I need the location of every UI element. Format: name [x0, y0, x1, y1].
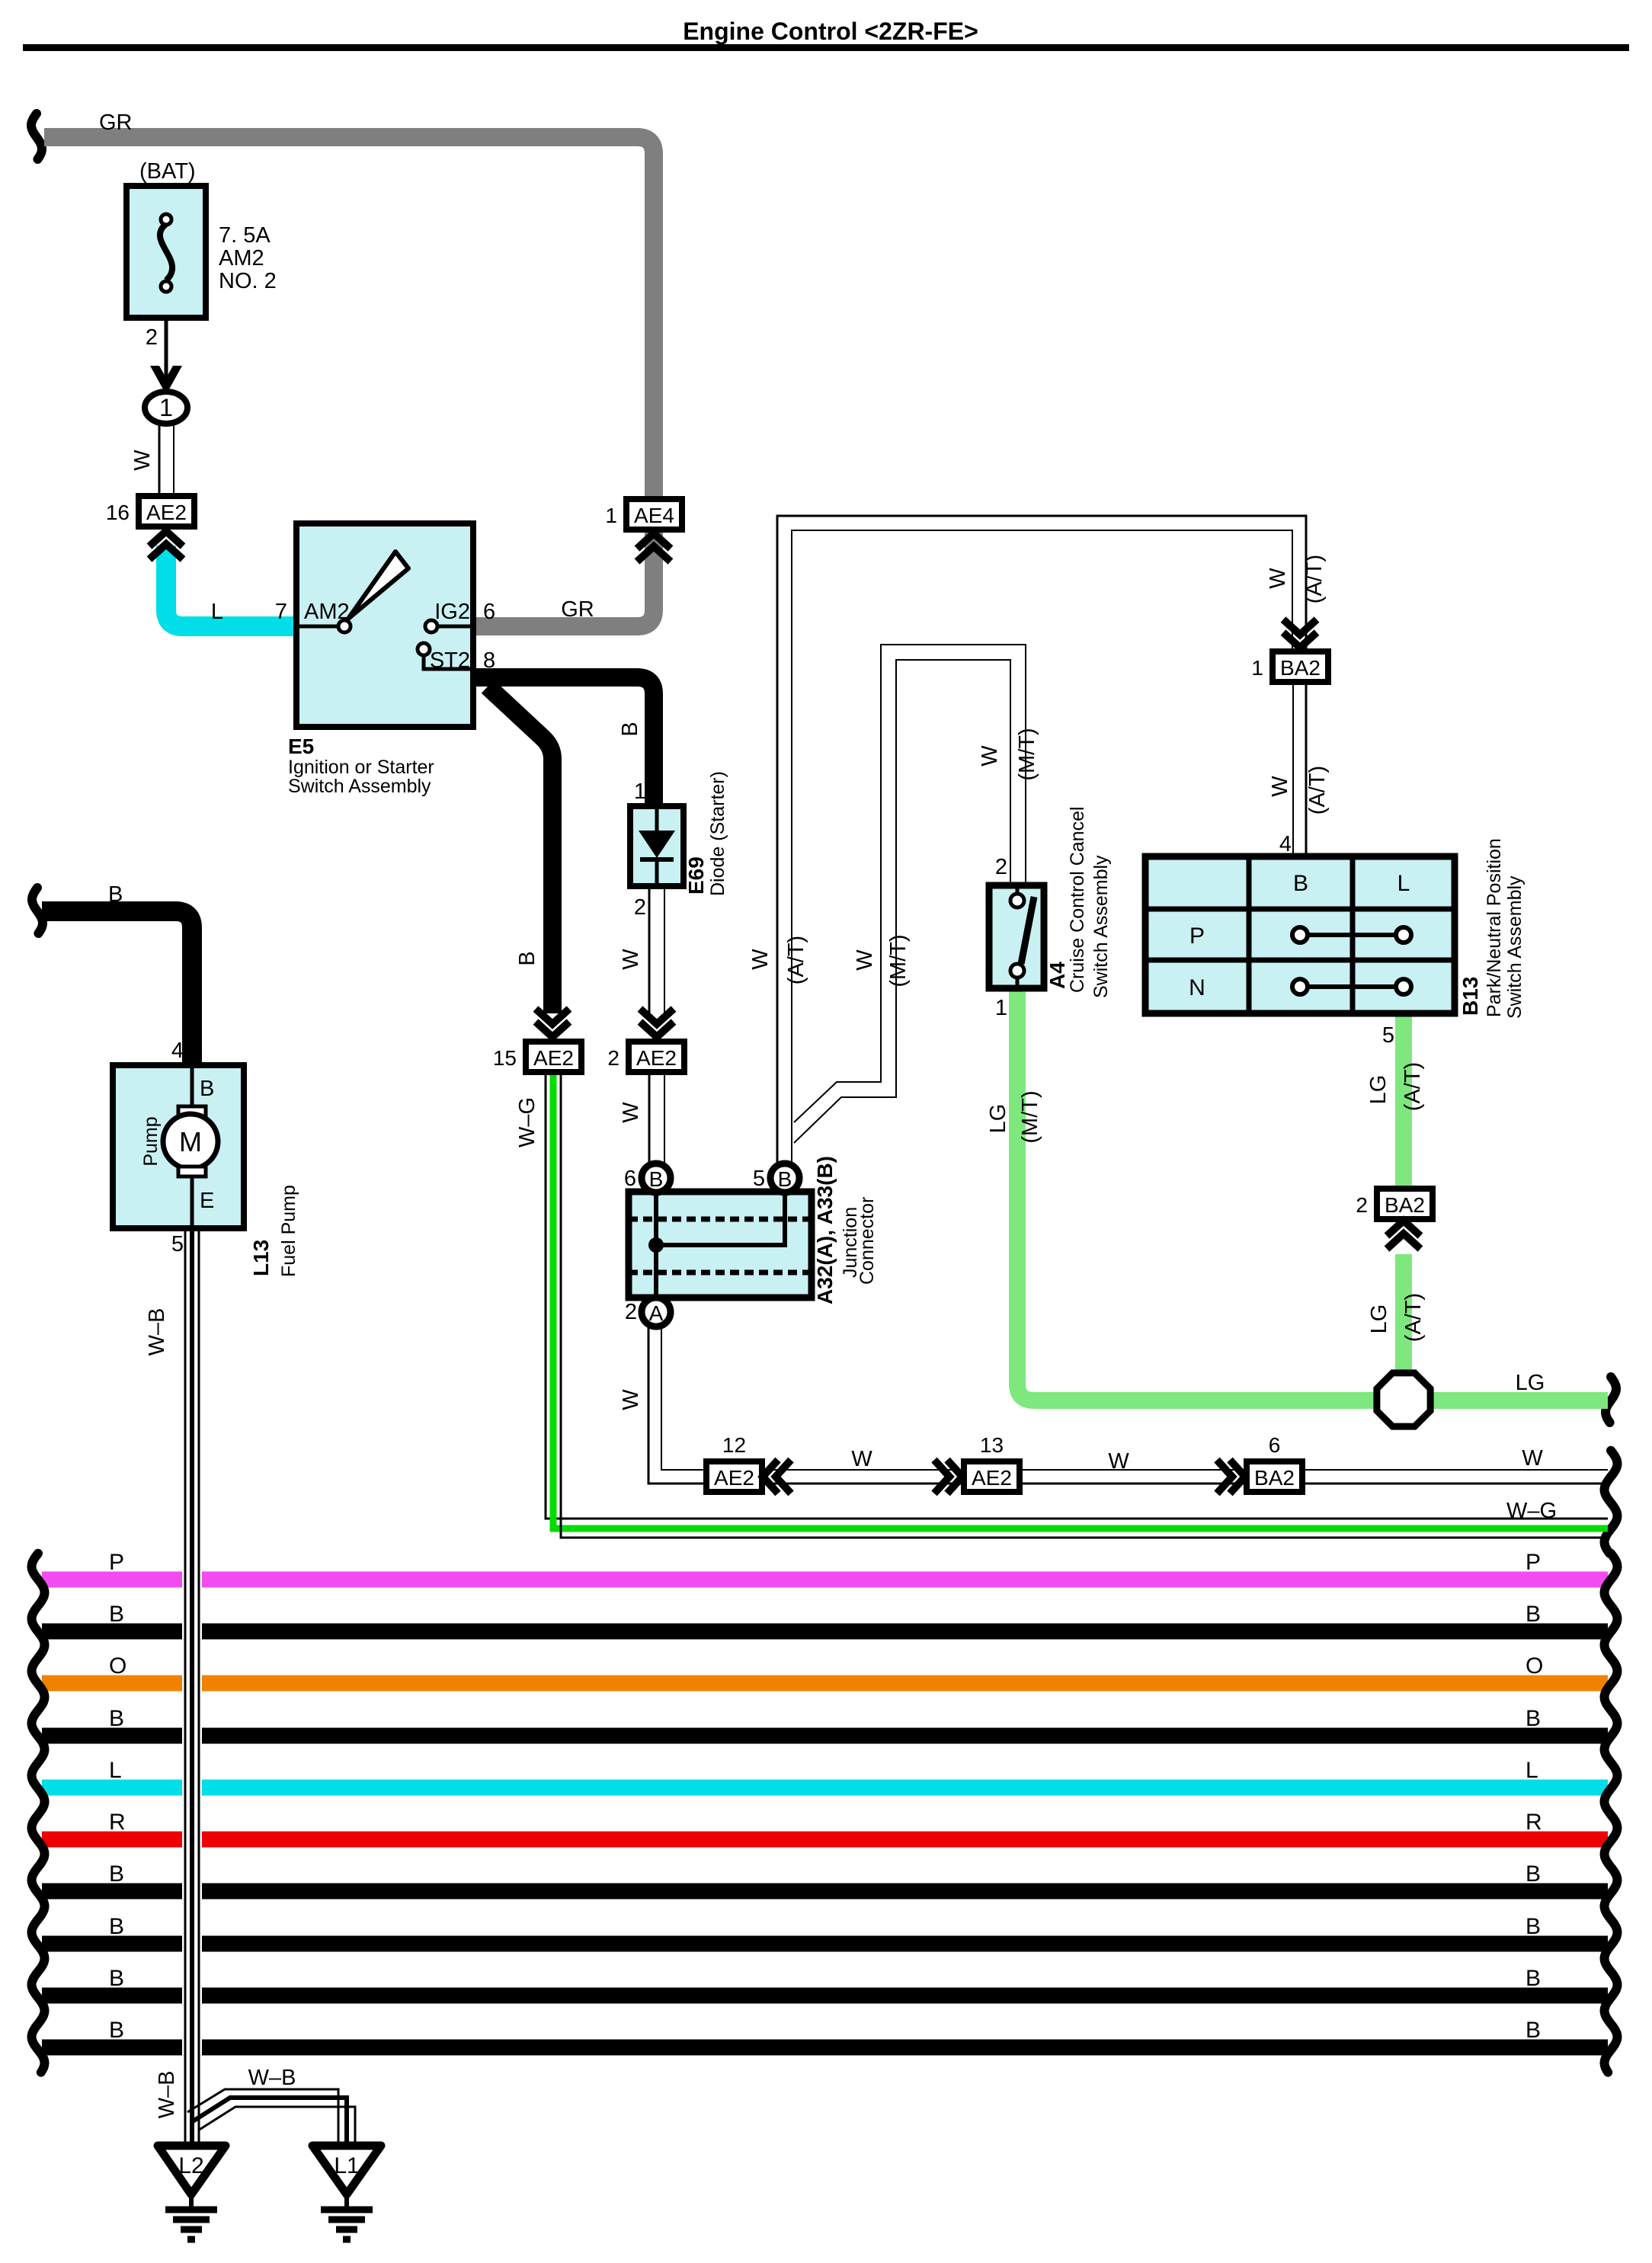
svg-text:Switch Assembly: Switch Assembly	[1090, 855, 1112, 998]
svg-text:8: 8	[483, 648, 495, 673]
fuel pump L13 box	[113, 1065, 244, 1228]
pump motor M	[163, 1114, 218, 1169]
wire break symbol chain left (bus)	[32, 1554, 45, 2073]
svg-text:BA2: BA2	[1254, 1466, 1295, 1490]
connector 1 BA2	[1283, 632, 1317, 648]
svg-text:L: L	[109, 1758, 122, 1783]
wire W below diode to AE2 2 to junction B6	[648, 886, 651, 1013]
svg-text:W: W	[619, 1102, 643, 1123]
svg-text:1: 1	[1251, 656, 1263, 680]
svg-text:B: B	[200, 1077, 214, 1101]
svg-text:Fuel Pump: Fuel Pump	[278, 1185, 299, 1277]
E5 AM2 contact	[299, 625, 338, 629]
svg-text:L1: L1	[334, 2153, 359, 2178]
svg-text:M: M	[179, 1126, 202, 1157]
wire W: junction A down, right to AE2 12, AE2 13, BA2 6, break	[648, 1328, 1608, 1484]
svg-text:6: 6	[624, 1167, 636, 1191]
E5 IG2 contact	[425, 620, 437, 632]
park/neutral position switch B13 box	[1145, 856, 1455, 1013]
svg-text:P: P	[1526, 1550, 1541, 1575]
svg-text:(M/T): (M/T)	[886, 934, 911, 987]
svg-text:2: 2	[634, 895, 646, 920]
svg-text:Switch Assembly: Switch Assembly	[1504, 875, 1526, 1019]
wire W-G: AE2 15 down and right to break	[546, 1070, 1608, 1519]
svg-text:(A/T): (A/T)	[1401, 1062, 1425, 1111]
svg-text:Cruise Control Cancel: Cruise Control Cancel	[1067, 806, 1088, 993]
svg-text:W: W	[1266, 568, 1290, 589]
diode E69 box	[630, 806, 684, 886]
svg-text:ST2: ST2	[430, 648, 470, 673]
svg-text:Engine Control <2ZR-FE>: Engine Control <2ZR-FE>	[683, 18, 978, 45]
svg-text:(A/T): (A/T)	[1401, 1293, 1426, 1342]
svg-text:W: W	[619, 1389, 643, 1410]
svg-text:A32(A), A33(B): A32(A), A33(B)	[813, 1156, 837, 1304]
wire break symbol chain right (bus)	[1605, 1554, 1618, 2073]
wire LG: octagon right to break	[1431, 1392, 1608, 1409]
svg-text:(M/T): (M/T)	[1015, 728, 1039, 780]
svg-text:LG: LG	[1516, 1371, 1545, 1395]
connector 2 BA2	[1377, 1189, 1433, 1219]
svg-text:(A/T): (A/T)	[1302, 555, 1327, 603]
connector 15 AE2	[536, 1022, 569, 1037]
svg-text:4: 4	[1279, 832, 1292, 856]
svg-text:GR: GR	[99, 110, 133, 135]
svg-text:N: N	[1189, 975, 1205, 1000]
svg-text:W: W	[853, 949, 877, 971]
node 1 ellipse	[145, 392, 187, 424]
connector 16 AE2	[139, 496, 194, 527]
svg-text:AM2: AM2	[219, 246, 264, 270]
connector 13 AE2	[947, 1460, 962, 1493]
svg-text:13: 13	[980, 1433, 1004, 1457]
wire W-B vertical gap mask	[182, 1562, 202, 2065]
svg-text:P: P	[109, 1550, 124, 1575]
connector 2 AE2	[640, 1022, 674, 1037]
svg-text:B: B	[109, 1602, 124, 1627]
svg-text:Diode (Starter): Diode (Starter)	[707, 771, 728, 896]
junction pin circle B 5	[770, 1164, 799, 1192]
svg-text:(BAT): (BAT)	[139, 159, 196, 184]
svg-text:A4: A4	[1045, 962, 1069, 989]
svg-text:Park/Neutral Position: Park/Neutral Position	[1484, 838, 1505, 1017]
svg-text:W–B: W–B	[155, 2071, 179, 2119]
svg-text:1: 1	[995, 996, 1007, 1020]
svg-text:O: O	[109, 1653, 126, 1679]
svg-text:Switch Assembly: Switch Assembly	[288, 776, 431, 797]
svg-text:NO. 2: NO. 2	[219, 269, 277, 293]
svg-text:W: W	[978, 745, 1002, 767]
fuse AM2 NO.2 (BAT)	[126, 186, 206, 318]
connector 1 AE4	[626, 499, 682, 530]
svg-text:GR: GR	[561, 597, 594, 622]
svg-text:B: B	[1526, 1914, 1541, 1939]
wire break GR top left	[31, 114, 42, 159]
svg-text:AE2: AE2	[533, 1046, 574, 1070]
svg-text:6: 6	[1269, 1433, 1281, 1457]
svg-text:R: R	[109, 1810, 126, 1835]
connector 12 AE2	[706, 1461, 762, 1492]
svg-text:2: 2	[995, 855, 1007, 879]
svg-text:P: P	[1189, 923, 1205, 949]
svg-text:AE2: AE2	[146, 501, 187, 524]
svg-text:W: W	[1268, 776, 1292, 797]
svg-text:W–B: W–B	[145, 1308, 169, 1356]
svg-text:L: L	[211, 600, 223, 624]
svg-text:Ignition or Starter: Ignition or Starter	[288, 757, 434, 778]
bus wire labels	[109, 1550, 1543, 2043]
svg-text:7. 5A: 7. 5A	[219, 223, 271, 248]
svg-text:O: O	[1526, 1653, 1543, 1679]
svg-text:E: E	[200, 1189, 214, 1213]
junction pin circle A 2	[642, 1298, 671, 1327]
svg-text:L: L	[1397, 871, 1410, 896]
svg-text:L13: L13	[249, 1240, 273, 1276]
svg-text:6: 6	[483, 600, 495, 624]
wire from fuse pin 2 to node 1	[165, 318, 168, 381]
wire GR: from break via AE4 down to E5 IG2	[44, 137, 654, 626]
svg-text:B: B	[109, 1966, 124, 1991]
svg-text:2: 2	[146, 325, 158, 350]
svg-text:B: B	[1293, 871, 1308, 896]
svg-text:1: 1	[605, 504, 617, 527]
svg-text:LG: LG	[986, 1104, 1010, 1134]
junction connector A32(A) A33(B) box	[629, 1192, 812, 1298]
svg-text:AE2: AE2	[636, 1046, 677, 1070]
wire break LG right	[1606, 1377, 1616, 1423]
E5 lever	[348, 552, 408, 619]
wire break W / W-G right	[1605, 1451, 1618, 1554]
svg-text:B: B	[108, 882, 123, 907]
svg-text:W–G: W–G	[515, 1097, 539, 1148]
svg-text:B: B	[1526, 2018, 1541, 2043]
cruise control cancel switch A4 box	[989, 885, 1044, 988]
svg-text:5: 5	[171, 1232, 184, 1256]
wire W (A/T): BA2 1 down to B13 pin 4	[1292, 678, 1294, 858]
svg-text:IG2: IG2	[434, 600, 470, 624]
svg-text:B: B	[1526, 1861, 1541, 1887]
svg-text:W: W	[851, 1447, 872, 1471]
svg-text:W: W	[130, 450, 155, 471]
svg-text:E5: E5	[288, 735, 314, 758]
svg-text:4: 4	[171, 1039, 184, 1063]
svg-text:E69: E69	[684, 856, 708, 895]
connector 6 BA2	[1230, 1460, 1245, 1493]
svg-text:AE4: AE4	[634, 504, 674, 527]
svg-text:2: 2	[625, 1300, 637, 1324]
svg-text:B: B	[1526, 1966, 1541, 1991]
wire B: ST2 to diode E69 with branch to AE2 15	[474, 677, 654, 806]
svg-text:W–B: W–B	[248, 2066, 296, 2090]
E5 ST2 contact	[418, 643, 430, 655]
svg-text:AE2: AE2	[714, 1466, 754, 1490]
svg-text:B: B	[109, 1914, 124, 1939]
svg-text:W–G: W–G	[1506, 1499, 1557, 1523]
svg-text:(A/T): (A/T)	[1305, 766, 1330, 815]
wire W-B branch to ground L1	[187, 2089, 338, 2146]
svg-text:1: 1	[159, 394, 173, 421]
ground L2	[158, 2146, 226, 2194]
svg-text:R: R	[1526, 1810, 1542, 1835]
wire LG (M/T): A4 pin 1 down and right to octagon	[1017, 988, 1376, 1400]
svg-text:2: 2	[607, 1046, 619, 1070]
svg-text:L2: L2	[178, 2153, 203, 2178]
svg-text:B: B	[1526, 1602, 1541, 1627]
svg-text:BA2: BA2	[1385, 1193, 1425, 1217]
svg-text:2: 2	[1356, 1193, 1368, 1217]
node octagon splice	[1377, 1373, 1430, 1426]
svg-text:B: B	[109, 1706, 124, 1731]
arrowhead into node 1	[150, 366, 182, 395]
svg-text:15: 15	[493, 1046, 517, 1070]
svg-text:B: B	[515, 951, 539, 965]
svg-text:Connector: Connector	[856, 1197, 878, 1285]
horizontal bus wires P/B/O/B/L/R/B/B/B/B	[42, 1580, 1608, 2047]
wire W: node 1 to AE2 16 (double line)	[158, 422, 161, 497]
svg-text:1: 1	[634, 779, 646, 804]
svg-text:B: B	[109, 1861, 124, 1887]
svg-text:16: 16	[106, 501, 130, 524]
svg-text:B: B	[778, 1167, 792, 1191]
wire W (A/T) loop: junction B5 up, right, down to BA2 1	[777, 516, 1306, 1165]
ground L1	[312, 2146, 381, 2194]
svg-text:B: B	[109, 2018, 124, 2043]
B13 P row contacts	[1300, 933, 1404, 937]
svg-text:AE2: AE2	[972, 1466, 1012, 1490]
wire LG (A/T): B13 pin 5 down through BA2 2 to octagon	[1395, 1012, 1412, 1189]
svg-text:7: 7	[275, 600, 287, 624]
svg-text:Pump: Pump	[140, 1116, 162, 1166]
svg-text:LG: LG	[1366, 1075, 1391, 1105]
B13 N row contacts	[1300, 984, 1404, 989]
junction pin circle B 6	[642, 1164, 671, 1192]
ignition switch E5 box	[296, 523, 473, 727]
svg-text:A: A	[649, 1301, 664, 1325]
wire W (M/T) loop: merge above B5 up, right, down to A4 pin 2	[794, 645, 1026, 1122]
svg-text:5: 5	[753, 1167, 765, 1191]
svg-text:B13: B13	[1458, 977, 1482, 1016]
wire break B fuel pump left	[32, 888, 43, 933]
svg-text:W: W	[1522, 1446, 1543, 1471]
wire L (cyan): AE2 16 to E5 AM2	[166, 546, 296, 626]
wire W-B: fuel pump pin 5 down to ground L2	[184, 1229, 187, 2146]
svg-text:AM2: AM2	[304, 600, 350, 624]
svg-text:12: 12	[722, 1433, 746, 1457]
svg-text:L: L	[1526, 1758, 1538, 1783]
svg-text:B: B	[1526, 1706, 1541, 1731]
svg-text:LG: LG	[1367, 1304, 1391, 1334]
svg-text:5: 5	[1382, 1023, 1394, 1048]
svg-text:W: W	[1108, 1449, 1129, 1474]
svg-text:B: B	[618, 722, 642, 736]
svg-text:(M/T): (M/T)	[1018, 1090, 1042, 1143]
junction internal link with dot	[648, 1237, 664, 1253]
svg-text:BA2: BA2	[1280, 656, 1321, 680]
svg-text:(A/T): (A/T)	[784, 936, 808, 984]
svg-text:W: W	[748, 949, 773, 970]
svg-text:W: W	[619, 949, 643, 970]
wire B: break to fuel pump pin 4	[42, 911, 192, 1065]
svg-text:B: B	[649, 1167, 664, 1191]
